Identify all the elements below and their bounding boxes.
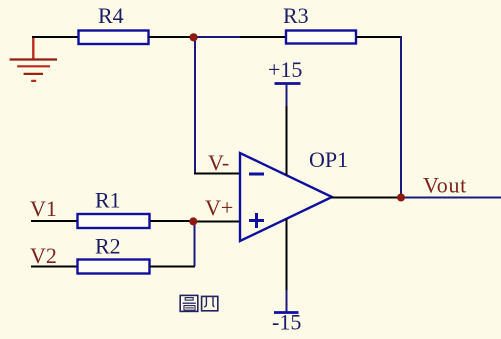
svg-text:R2: R2 xyxy=(95,234,121,259)
+15 supply bar xyxy=(275,82,301,85)
wire to V- input xyxy=(194,173,240,175)
-15 supply bar xyxy=(274,311,299,314)
svg-text:Vout: Vout xyxy=(423,173,467,198)
wire feedback vertical xyxy=(400,36,402,198)
svg-text:V-: V- xyxy=(208,150,229,175)
wire R3 to corner xyxy=(356,36,402,38)
svg-text:V2: V2 xyxy=(30,243,57,268)
wire output to edge xyxy=(401,197,501,199)
wire riser up to node B xyxy=(194,222,196,267)
resistor R3 xyxy=(286,31,356,44)
resistor R4 xyxy=(79,31,149,45)
op-amp minus symbol xyxy=(249,173,264,176)
svg-text:-15: -15 xyxy=(272,310,301,335)
resistor R1 xyxy=(78,214,150,228)
wire R4 to node A xyxy=(149,36,194,38)
wire R1 to node B xyxy=(150,220,194,222)
wire node A down xyxy=(194,38,196,175)
node B junction xyxy=(189,217,197,225)
wire V1 to R1 xyxy=(31,220,78,222)
svg-text:OP1: OP1 xyxy=(309,147,348,172)
wire -15 stub xyxy=(286,290,288,313)
ground xyxy=(10,36,57,81)
node C junction xyxy=(397,194,405,202)
wire op-amp to -15 xyxy=(286,219,288,290)
op-amp plus symbol xyxy=(249,213,264,228)
wire node A to R3 xyxy=(193,36,240,38)
caption glyph 圖 xyxy=(180,295,198,311)
wire +15 stub xyxy=(286,84,288,106)
svg-text:R3: R3 xyxy=(283,3,309,28)
svg-text:V1: V1 xyxy=(30,196,57,221)
wire node B to V+ input xyxy=(193,221,240,223)
svg-text:+15: +15 xyxy=(268,57,302,82)
svg-text:V+: V+ xyxy=(205,195,233,220)
wire op-amp output xyxy=(331,197,401,199)
svg-text:R4: R4 xyxy=(98,3,124,28)
wire R2 to riser xyxy=(150,266,196,268)
wire xyxy=(240,36,286,38)
node A junction xyxy=(190,33,198,41)
op-amp U1 triangle xyxy=(240,153,332,241)
resistor R2 xyxy=(78,260,150,274)
wire V2 to R2 xyxy=(31,266,78,268)
svg-text:R1: R1 xyxy=(95,188,121,213)
wire +15 to op-amp xyxy=(286,106,288,175)
wire ground to R4 xyxy=(32,36,79,38)
caption glyph 四 xyxy=(202,296,218,310)
